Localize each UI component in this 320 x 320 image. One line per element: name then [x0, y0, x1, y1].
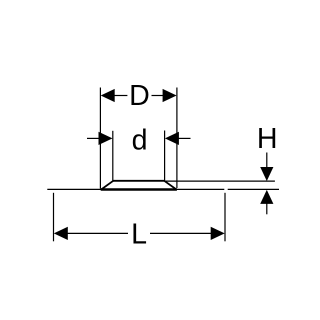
svg-text:L: L — [131, 218, 147, 250]
svg-text:H: H — [257, 123, 278, 155]
svg-text:D: D — [129, 80, 150, 112]
svg-text:d: d — [132, 124, 148, 156]
